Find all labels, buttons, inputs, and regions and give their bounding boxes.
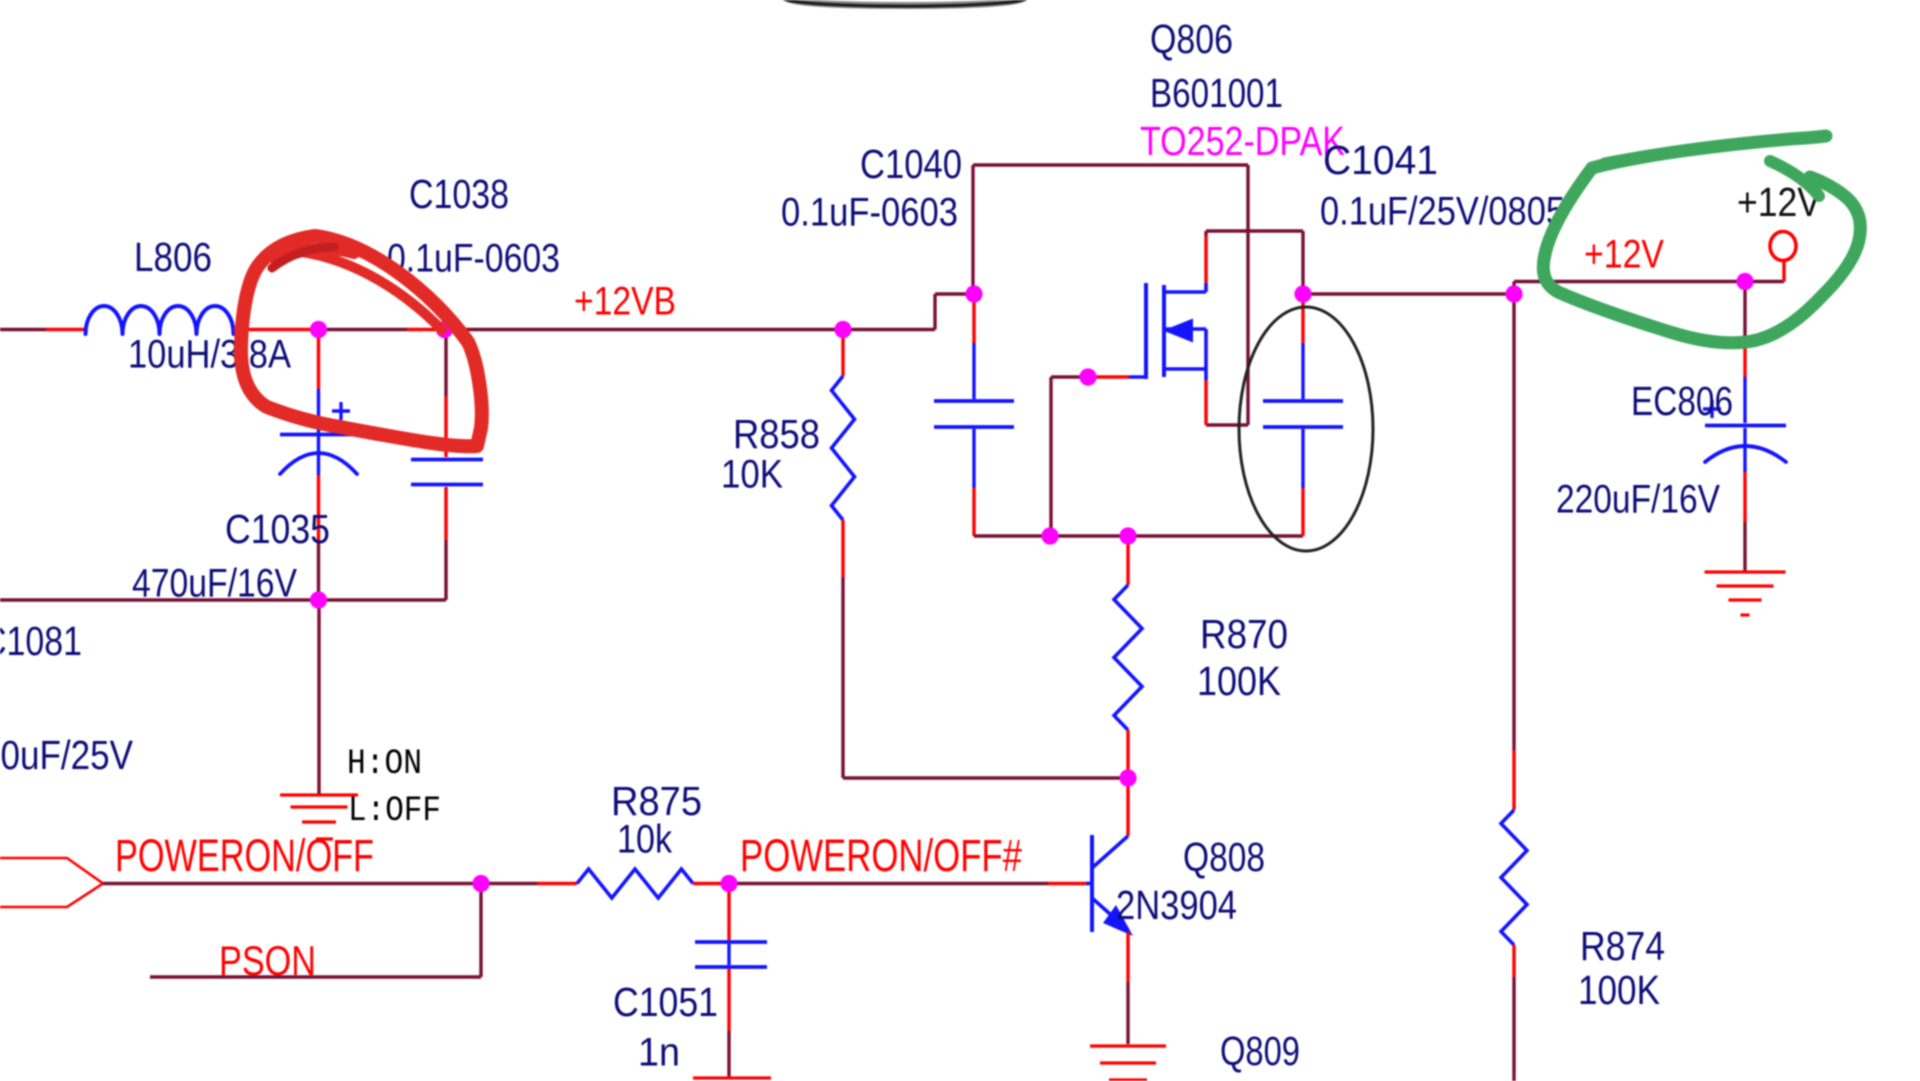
svg-text:00uF/25V: 00uF/25V	[0, 732, 134, 778]
svg-text:0.1uF-0603: 0.1uF-0603	[781, 191, 958, 235]
svg-text:B601001: B601001	[1150, 70, 1283, 116]
svg-text:C1081: C1081	[0, 618, 82, 664]
svg-text:H:ON: H:ON	[347, 744, 422, 784]
svg-text:Q808: Q808	[1183, 834, 1265, 880]
svg-text:2N3904: 2N3904	[1116, 882, 1237, 928]
svg-text:Q809: Q809	[1220, 1028, 1300, 1074]
svg-text:+12VB: +12VB	[574, 280, 676, 324]
svg-text:220uF/16V: 220uF/16V	[1556, 478, 1720, 522]
svg-text:10uH/3.8A: 10uH/3.8A	[128, 333, 291, 377]
svg-text:C1040: C1040	[860, 141, 962, 187]
svg-text:10k: 10k	[617, 818, 673, 862]
svg-text:10K: 10K	[721, 453, 783, 497]
svg-text:PSON: PSON	[219, 937, 316, 984]
svg-text:R870: R870	[1200, 611, 1288, 657]
svg-text:100K: 100K	[1578, 967, 1660, 1013]
svg-text:POWERON/OFF#: POWERON/OFF#	[740, 830, 1022, 881]
svg-text:C1038: C1038	[409, 171, 509, 217]
svg-text:POWERON/OFF: POWERON/OFF	[115, 830, 374, 881]
svg-text:TO252-DPAK: TO252-DPAK	[1140, 118, 1345, 164]
svg-text:+12V: +12V	[1584, 233, 1664, 277]
svg-text:R858: R858	[733, 411, 820, 457]
svg-text:0.1uF-0603: 0.1uF-0603	[387, 237, 560, 281]
svg-text:R874: R874	[1580, 923, 1665, 969]
svg-text:C1035: C1035	[225, 506, 330, 552]
svg-text:Q806: Q806	[1150, 16, 1233, 62]
svg-text:EC806: EC806	[1631, 378, 1733, 424]
svg-text:100K: 100K	[1197, 658, 1281, 704]
svg-text:L806: L806	[134, 234, 212, 280]
svg-text:470uF/16V: 470uF/16V	[132, 562, 297, 606]
svg-text:1n: 1n	[638, 1031, 680, 1075]
svg-text:L:OFF: L:OFF	[348, 791, 441, 831]
svg-text:C1041: C1041	[1323, 137, 1438, 183]
svg-text:C1051: C1051	[613, 979, 718, 1025]
svg-text:0.1uF/25V/0805: 0.1uF/25V/0805	[1320, 190, 1565, 234]
